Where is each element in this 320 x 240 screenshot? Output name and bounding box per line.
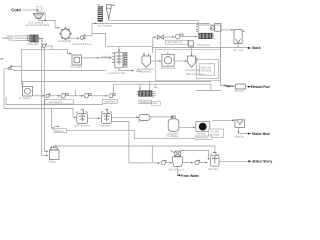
wire corn feed	[23, 9, 39, 11]
svg-text:SSF Fermentor: SSF Fermentor	[75, 124, 91, 127]
wire Pb to Pc	[68, 95, 83, 97]
wire inlet 1	[14, 35, 29, 37]
wire mill to fan	[71, 37, 79, 39]
wire N to T	[151, 60, 161, 62]
svg-text:Beer Mash (in): Beer Mash (in)	[167, 41, 182, 44]
wire inlet 2	[14, 37, 29, 39]
svg-text:Liquefaction Tank: Liquefaction Tank	[108, 72, 127, 75]
wire main bottoms line	[57, 146, 215, 152]
big right box	[198, 25, 221, 86]
svg-text:Fermentor: Fermentor	[100, 124, 111, 127]
wire V2 out lower	[112, 122, 160, 163]
vessel X stoker tank	[210, 152, 219, 167]
vessel vent KO drum	[234, 30, 245, 44]
svg-text:Steam (in): Steam (in)	[201, 66, 212, 69]
wire B2 out	[33, 95, 45, 97]
wire condenser feed	[204, 22, 210, 24]
condenser CN-101	[210, 24, 221, 32]
wire vent out	[237, 44, 239, 48]
svg-text:Corn Conveyor: Corn Conveyor	[28, 21, 44, 24]
svg-text:Grinding Mill: Grinding Mill	[58, 40, 71, 43]
wire EV to centrifuge	[179, 126, 195, 128]
column SB-101 scrubber striped	[98, 4, 103, 21]
riser to separation feed	[153, 37, 156, 46]
wire drum out	[246, 86, 248, 88]
dryer DR-101 striped	[199, 33, 215, 38]
wire drop into P	[191, 48, 193, 54]
svg-text:Exh. Gas: Exh. Gas	[234, 50, 244, 52]
arrow Fresh Water	[177, 174, 180, 176]
pump P4	[109, 94, 115, 98]
blower Q bowtie	[158, 35, 164, 39]
arrow Stack	[248, 47, 251, 49]
wire aux left line	[6, 97, 103, 105]
svg-text:Dewatering Screen: Dewatering Screen	[73, 43, 93, 46]
wire left recycle loop	[4, 69, 73, 117]
label Distillation	[139, 100, 151, 104]
wire to product drum	[221, 85, 234, 87]
pump Pc	[84, 94, 91, 99]
pump2 bottom	[195, 160, 200, 165]
vessel EV evaporator	[168, 116, 179, 131]
svg-text:Thin Still.: Thin Still.	[210, 130, 220, 133]
svg-text:Heat Mash: Heat Mash	[104, 101, 116, 104]
slurry down lines to bottom tank	[42, 40, 48, 156]
svg-text:Separation (in): Separation (in)	[185, 69, 200, 72]
svg-text:De-Gassing: De-Gassing	[19, 98, 32, 100]
exchanger JC-101 jet cooker square	[72, 55, 82, 65]
wire recycle line A	[21, 66, 211, 81]
wire riser mid	[92, 34, 106, 47]
svg-text:Distillation: Distillation	[140, 101, 151, 104]
wire sieve out	[183, 162, 193, 164]
svg-text:Mole Sieve (in): Mole Sieve (in)	[169, 170, 185, 172]
wire HV to EV	[150, 117, 173, 119]
wire pump2 to X	[199, 162, 207, 164]
nested rect R1	[197, 60, 219, 79]
labelbox split	[54, 129, 67, 133]
labelbox Beer Well	[45, 100, 74, 104]
svg-text:Etoh Tank: Etoh Tank	[208, 168, 219, 171]
wire condenser to vent vessel	[221, 29, 233, 31]
svg-text:Jet Cooking: Jet Cooking	[70, 66, 83, 69]
pump R circle	[175, 34, 183, 39]
degasser B2 box circle	[21, 83, 33, 96]
labelbox decanter	[209, 129, 224, 137]
arrow Ethanol Fuel	[248, 86, 251, 88]
wire dryer feed down	[197, 20, 199, 33]
cyclone CY-101	[106, 5, 115, 21]
svg-text:Fresh Water: Fresh Water	[181, 174, 200, 178]
wire screen to mill	[39, 20, 60, 28]
wire pump to cook line	[46, 46, 53, 49]
svg-text:Centrifug.: Centrifug.	[196, 132, 206, 135]
svg-text:Stoker Meal: Stoker Meal	[252, 132, 270, 136]
tank V-101 slurry striped	[30, 35, 38, 42]
svg-text:Evaporator: Evaporator	[168, 132, 179, 135]
wire split feed	[51, 108, 53, 128]
arrow Stoker Meal	[248, 133, 251, 135]
bin V meal	[235, 120, 245, 128]
svg-text:Stoker Slurry: Stoker Slurry	[252, 160, 272, 164]
fermentor V2	[101, 109, 112, 124]
wire conveyor down	[44, 12, 46, 20]
svg-text:(Hydrolysis): (Hydrolysis)	[139, 71, 151, 74]
centrifuge W dark	[196, 122, 210, 132]
wire bin down to meal line	[237, 127, 239, 132]
wire pump1 to sieve unit	[165, 162, 171, 164]
coil column striped	[124, 53, 127, 68]
pump1 bottom	[161, 160, 166, 165]
svg-text:Meal Bin: Meal Bin	[235, 137, 245, 139]
hydrocyclone P separation	[188, 54, 198, 68]
wire Pa to Pb	[49, 95, 59, 97]
hydrocyclone N saccharification	[142, 53, 151, 67]
wire to sieve	[183, 36, 196, 38]
svg-text:Beer: Beer	[153, 102, 158, 105]
labelbox Heat Mash	[102, 99, 117, 103]
conveyor CV-101	[36, 7, 45, 12]
mill GR-101 grinding	[60, 28, 72, 40]
wire liq bottom	[119, 68, 133, 71]
sieve unit Y	[171, 150, 184, 166]
tank T2 storage	[50, 146, 60, 160]
wire drop into N	[152, 46, 154, 53]
svg-text:Pre-Fermenter: Pre-Fermenter	[161, 67, 176, 70]
wire sieve down freshwater	[176, 166, 179, 175]
svg-text:Stack: Stack	[252, 46, 261, 50]
wire recycle line B	[114, 84, 212, 93]
labelbox small right	[152, 101, 161, 105]
big box B	[156, 50, 221, 81]
wire slurry out	[38, 38, 41, 40]
wire D2 feeds	[139, 84, 141, 89]
svg-text:Slurry Tank: Slurry Tank	[27, 43, 39, 46]
stream stub left edge	[1, 59, 4, 60]
small box denat	[188, 41, 194, 46]
pump Pb	[61, 94, 68, 99]
drum U product	[235, 84, 245, 90]
svg-text:Backset: Backset	[55, 130, 64, 133]
screen SC-101 cleaning	[33, 13, 44, 20]
pump P-101	[42, 44, 46, 48]
arrow Stoker Slurry	[248, 160, 251, 162]
wire Pc to P4	[91, 95, 107, 97]
svg-text:Vent Scrubber: Vent Scrubber	[98, 24, 113, 27]
wire cooker out	[82, 57, 112, 59]
drum HV beer drum	[138, 115, 150, 123]
labelbox top right bottom section	[195, 136, 212, 140]
wire to pumpR	[163, 36, 174, 38]
svg-text:Ethanol Fuel: Ethanol Fuel	[251, 85, 270, 89]
svg-text:Saccharification: Saccharification	[137, 68, 154, 71]
column D2 beer column striped	[139, 91, 157, 97]
wire scrubber bottom	[99, 21, 101, 23]
wire to meal bin	[212, 119, 234, 121]
svg-text:Rotary Dryer: Rotary Dryer	[197, 44, 210, 47]
exchanger T box circle	[162, 52, 174, 66]
wire drop to liquefaction	[118, 46, 120, 51]
wire base header	[92, 22, 210, 24]
wire long left water line	[16, 70, 106, 72]
svg-text:Air: Air	[2, 37, 5, 40]
svg-text:Stillage: Stillage	[49, 160, 57, 163]
wire cook header	[21, 49, 71, 53]
nested rect R2	[199, 64, 214, 75]
vessel V-102 liquefaction	[112, 52, 123, 68]
wire T to P	[174, 60, 186, 62]
svg-text:Cleaning and Weighing: Cleaning and Weighing	[26, 25, 50, 27]
svg-text:CHP Boiler: CHP Boiler	[201, 70, 213, 73]
wire cyclone header	[109, 19, 199, 21]
svg-text:Beer Well (in): Beer Well (in)	[49, 101, 63, 104]
wire fan riser to scrubber base	[85, 23, 92, 35]
wire mid header	[106, 45, 153, 47]
fan FN-101	[80, 35, 85, 40]
fermentor V1	[76, 109, 87, 124]
labelbox Beer Mash	[165, 40, 188, 44]
wire V1 to V2	[88, 117, 100, 119]
svg-text:Whole Still.: Whole Still.	[197, 137, 209, 140]
svg-text:Corn: Corn	[11, 7, 21, 12]
wire backset branch	[20, 49, 22, 66]
wire V2 out upper	[112, 116, 138, 118]
pump Pa	[46, 94, 50, 98]
svg-text:Thin Stillage: Thin Stillage	[166, 135, 179, 138]
svg-text:Fuel Tank: Fuel Tank	[234, 91, 245, 93]
wire X out	[219, 160, 248, 162]
wire inlet 3	[14, 39, 29, 41]
wire inlet air	[5, 37, 9, 39]
valve J junction circle	[9, 67, 12, 70]
svg-text:Lime: Lime	[8, 40, 14, 42]
wire sieve top loop	[182, 150, 209, 159]
